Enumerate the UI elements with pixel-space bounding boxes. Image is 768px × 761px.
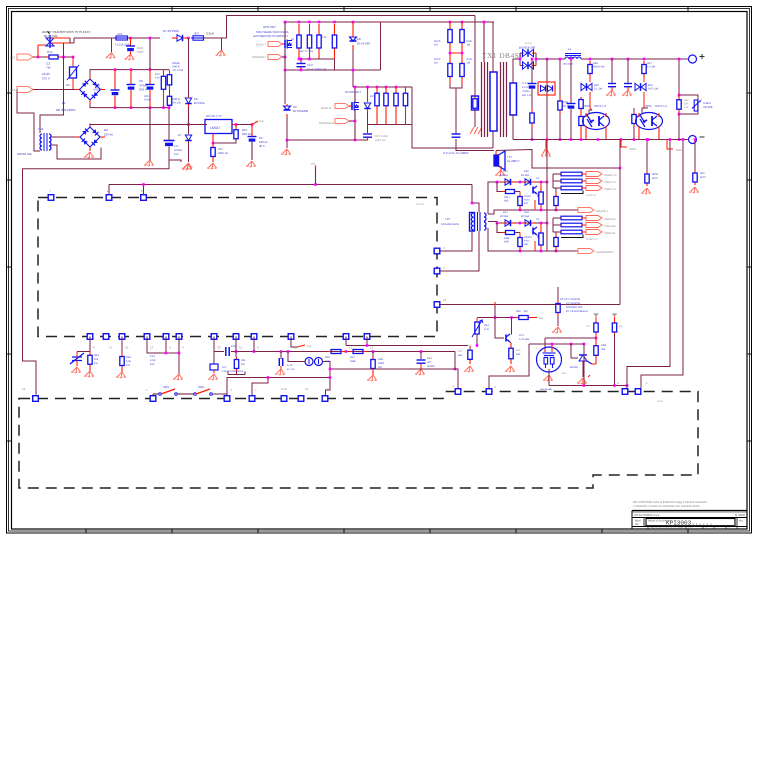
wire riser pin2 [627,140,670,389]
junction [298,21,301,24]
svg-text:3 W: 3 W [684,106,689,109]
wire sec pin top [512,72,514,83]
svg-text:4880 1%: 4880 1% [218,152,229,155]
svg-text:R40: R40 [516,349,521,352]
svg-text:4-7k: 4-7k [287,364,293,367]
svg-text:470uF: 470uF [93,88,102,92]
resistor R35c [554,192,558,210]
diode D6 [185,98,191,104]
r41b tail [531,128,533,140]
MOSFET Q2 [352,102,359,111]
label snub [522,82,527,85]
ground (C12) [415,369,425,375]
dual diode D11 loop [520,53,536,66]
net tent FF [612,314,618,322]
svg-text:0.1uF 1000V 1%: 0.1uF 1000V 1% [307,68,327,71]
wire fan gnd [548,369,550,374]
junction [352,21,355,24]
svg-text:5% 2W: 5% 2W [173,102,182,105]
wire pin12b down [366,337,368,346]
svg-text:R3?: R3? [350,356,355,359]
junction [546,181,549,184]
junction [483,21,486,24]
label [434,62,438,65]
junction [570,58,573,61]
wire aux return long [23,163,170,395]
label TR2 ratio [17,152,32,156]
label [524,240,530,243]
SCR Q7 [579,355,592,364]
output terminal + [689,54,705,63]
wire pin11b up [326,378,331,396]
net stub VXX [311,162,316,185]
label C6 [139,79,143,83]
d17 stubs [502,222,515,224]
iso4 pins [639,113,659,140]
port GATE-B [335,104,349,109]
svg-text:R41: R41 [484,324,489,327]
label [516,353,521,356]
wire bus377 [227,378,330,396]
svg-text:250 V: 250 V [139,88,147,92]
wire sec out a [536,58,565,60]
label [150,363,155,366]
wire pin8b down [253,337,255,352]
wire thermal a [52,37,70,39]
pin 11b [322,396,328,402]
trim cap VC1 [70,352,84,367]
junction [589,58,592,61]
label R44 [593,62,598,65]
ground (C19) [182,164,192,170]
resistor R63 [693,170,697,185]
port SOURCE-B [335,119,349,124]
junction [162,106,165,109]
svg-text:C6: C6 [139,79,143,83]
wire gate-t [282,43,285,45]
r42 wires [580,59,582,97]
regulator U2 LM317 [205,120,232,134]
label D19 [178,133,182,137]
pin 9b [281,396,287,402]
svg-text:10: 10 [125,346,129,350]
label [173,69,184,72]
svg-text:84R: 84R [516,353,521,356]
label Q4 [536,218,540,221]
c19 wires [168,108,170,163]
label R21 [291,38,295,41]
label R31 [350,356,355,359]
wire sec to diode [512,66,514,72]
label R36 [504,237,510,240]
svg-text:B2: B2 [104,128,108,132]
label [594,88,603,91]
svg-text:18: 18 [217,346,221,350]
junction [366,86,369,89]
label [173,65,180,69]
svg-text:BY26A: BY26A [521,215,529,218]
wire primary top [492,22,494,72]
label [524,199,530,202]
junction [62,56,65,59]
net stub 12V [252,119,264,125]
label [378,366,382,369]
transistor Q3 [533,186,537,194]
label Q6 [519,334,524,337]
svg-text:R6?: R6? [218,148,223,151]
label [259,140,268,144]
svg-text:C10?: C10? [307,64,314,67]
labels J2 [604,218,616,235]
label C13b [150,355,155,358]
label [350,360,356,363]
transformer TX1 core right [501,62,507,137]
d15 stubs [502,181,515,183]
c18 tail [280,366,282,369]
capacitor C17 [226,347,229,356]
label [174,149,183,152]
res R61 stub [235,125,237,129]
svg-text:SOURCE-B: SOURCE-B [319,121,334,125]
junction [395,86,398,89]
output terminal - [689,136,705,144]
wire aux DC out [90,124,207,125]
r18 tail [121,369,123,372]
TVS D9 [284,106,291,110]
r37d stub [555,232,557,233]
label [222,370,244,373]
diode D7 [177,35,183,41]
capacitor C12 [417,360,426,363]
svg-text:17: 17 [109,346,113,350]
resistor R54 [161,70,165,96]
label [94,358,99,361]
svg-text:BY FILTER BELL/L: BY FILTER BELL/L [566,310,589,313]
svg-text:85-7 9.81.: 85-7 9.81. [44,34,58,38]
wire primary top2 [483,22,485,62]
svg-text:84R: 84R [504,241,509,244]
label [137,50,144,54]
svg-text:16: 16 [443,298,447,302]
svg-text:16V: 16V [150,363,155,366]
junction [149,106,152,109]
svg-text:No: No [739,519,743,523]
junction [287,350,290,353]
wire link 571-584 [571,343,584,345]
pin 3r [434,268,440,274]
switch SW1 [159,385,178,395]
ground (bead) [216,50,226,56]
wire r41 tail [476,334,478,346]
note softstart [253,30,289,38]
svg-text:D15: D15 [503,170,508,173]
tvs d12 diodes [541,86,553,92]
label R11 [241,359,246,362]
junction [633,138,636,141]
resistor R42 [579,97,583,111]
svg-text:D7 BYV26A: D7 BYV26A [163,29,179,33]
wire thermal link [69,38,71,43]
svg-text:C5: C5 [96,83,100,87]
svg-text:4WIRE-T/x: 4WIRE-T/x [604,174,617,177]
label [56,108,76,112]
svg-text:560 1%: 560 1% [242,132,252,136]
label [684,106,689,109]
svg-text:C12: C12 [427,357,432,360]
resistor R24 [332,24,336,59]
wire U2 out rail [237,124,252,126]
varistor RV1 [67,65,79,80]
title no col [739,519,743,523]
junction [130,106,133,109]
wire aux primary feed [40,57,64,133]
title row1 [634,513,745,517]
svg-text:4n7: 4n7 [427,361,432,364]
junction [178,352,181,355]
junction [519,58,522,61]
svg-text:LM317: LM317 [210,126,220,130]
resistor R35b [539,186,543,210]
pin1c num [646,381,648,385]
label D7 [163,29,179,33]
label R54 [155,73,160,76]
svg-text:UPS-SB?: UPS-SB? [263,25,276,29]
svg-text:VR 50K: VR 50K [703,105,713,109]
doc number KPI3003 [666,520,713,527]
svg-text:R18: R18 [126,356,131,359]
pin7b num [255,388,257,392]
zener D19 tail [188,141,190,162]
label Q3 [536,177,540,180]
res R55 link [169,90,171,94]
r35c stub [555,188,557,192]
ground (pin4) [173,374,183,380]
label [94,362,98,365]
junction [540,222,543,225]
svg-text:R30: R30 [325,356,330,359]
junction [284,69,287,72]
wire source-t [282,56,285,58]
wire ch1 diode line [497,181,547,183]
cap C7 wire [149,38,151,70]
junction [449,21,452,24]
wire busA drop [454,352,456,370]
wire gate-b [349,105,352,107]
wire jog [73,38,75,43]
chassis ground C15 [606,90,616,96]
r47 wires [633,108,635,140]
svg-text:AC1: AC1 [10,56,16,60]
note delay transistors [42,30,91,38]
resistor R61 [234,129,238,141]
label D15 [503,170,508,173]
junction [619,167,622,170]
wire c18 drop [280,352,282,360]
label [104,133,113,137]
svg-text:11: 11 [349,346,352,350]
resistor R60 [211,143,215,161]
junction [318,21,321,24]
label R37b [524,236,533,239]
label LS1 [507,155,513,159]
svg-text:AC2: AC2 [10,88,16,92]
junction [165,352,168,355]
pin 11 [343,334,349,340]
svg-text:XXX: XXX [117,32,123,36]
junction [694,138,697,141]
net stub GND2 [667,140,682,153]
wire ch1 bottom rail [488,210,547,214]
ground (R60) [207,163,217,169]
label [42,77,50,81]
junction [308,21,311,24]
label [242,132,252,136]
r33 body big [472,96,479,110]
cap C6 stub2 [130,90,132,108]
junction [333,21,336,24]
label F1 [117,32,123,36]
pin 7 [48,195,54,201]
d16 stubs [522,181,535,183]
r48b wires [595,338,597,364]
resistor R18 [120,353,124,369]
label [521,215,529,218]
r42b wires [559,59,561,140]
ground (DC bus) [144,160,154,166]
label [150,359,156,362]
capacitor C14 [567,104,576,109]
label R38 [378,358,383,361]
wire aux sec top [51,136,79,138]
pin 2 [622,389,628,395]
junction [583,343,586,346]
svg-text:GATE-B: GATE-B [321,106,331,110]
svg-text:PWM4-B6: PWM4-B6 [604,225,616,228]
junction [253,350,256,353]
wire q2 drain [354,87,356,102]
c11 tail [367,138,369,141]
junction [682,138,685,141]
bridge rectifier B1 [80,79,101,100]
wire pin18 cap drop [213,352,215,365]
wire ch2 bottom rail [488,228,547,251]
wire to BOK port [547,209,578,211]
label [144,99,152,102]
bridge B1 stubs [75,76,105,105]
wire pin9 down [77,337,90,352]
junction [559,138,562,141]
label [42,72,50,76]
svg-text:BY26A: BY26A [500,174,508,177]
junction [595,337,598,340]
iso1 pins [586,113,606,140]
TR3 secondary B [484,222,486,230]
svg-text:D17: D17 [503,211,508,214]
label C11 [375,134,388,138]
resistor R22 [307,24,311,59]
junction [280,350,283,353]
label [648,88,659,91]
wires J2 [553,218,561,232]
wire q1 source [284,48,286,70]
wire output- rail [513,139,688,141]
svg-text:D16: D16 [524,170,529,173]
junction [286,139,289,142]
svg-text:5% 0.5W: 5% 0.5W [173,69,184,72]
svg-text:AUTOMATION SY-MOSFET: AUTOMATION SY-MOSFET [253,34,289,38]
pin 1c [635,389,641,395]
label [287,368,295,371]
tvs d9 stubs [286,104,288,117]
label C5 [96,83,100,87]
cap C19 [164,141,175,147]
ground (R62) [641,188,651,194]
label R45 [647,62,652,65]
aux transformer secondary winding [49,134,51,150]
junction [678,138,681,141]
label L2 [194,32,199,36]
svg-text:12: 12 [22,387,26,391]
diode D15 [505,179,511,185]
label RT1 [47,50,53,54]
pin6 num [494,385,496,389]
wire base rail [346,345,468,347]
junction [454,368,457,371]
ch1 rail links [520,200,535,210]
wire gate bus drop right [380,22,382,70]
junction [494,316,497,319]
resistor R45 [642,61,646,77]
junction [308,58,311,61]
pin 17 [103,334,109,340]
zener d14 stubs [644,77,648,108]
junction [546,222,549,225]
junction [540,250,543,253]
svg-text:1M: 1M [467,44,471,47]
junction [212,142,215,145]
wire C7 gnd drop [149,108,151,160]
label C18 [287,364,293,367]
gnd alarm glyph [541,148,551,157]
wire q6 emit [510,342,511,343]
r11 frame [228,371,245,375]
wire pin11 down [345,337,347,346]
ground (R39) [464,366,474,372]
label BOK-T [596,209,609,213]
capacitor C15 [608,84,616,87]
junction [329,368,332,371]
wire live riser [63,43,65,57]
label D13 [594,84,599,87]
net tent TV [593,314,599,322]
label R35 [524,195,532,198]
r50 tail [678,114,680,140]
cap C10 tail [300,67,302,70]
label [206,32,214,36]
junction [114,68,117,71]
control PCB module outline (dashed) [38,198,437,337]
svg-text:C-P: C-P [522,82,527,85]
svg-text:D18: D18 [524,211,529,214]
label [500,215,508,218]
label [357,42,370,46]
thermistor RT1 [46,55,61,59]
resistor R29 [403,87,407,112]
label [458,354,463,357]
label [155,77,160,80]
svg-text:xxx: xxx [311,162,316,166]
svg-text:1nF: 1nF [222,366,227,369]
